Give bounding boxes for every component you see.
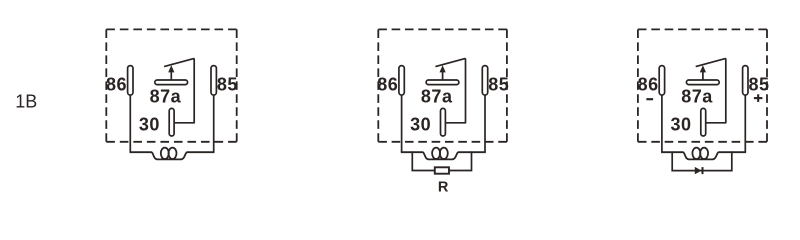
svg-text:30: 30 <box>670 115 691 135</box>
relay K2 coil winding <box>401 148 486 160</box>
relay K1 terminal pin 86 <box>128 66 133 96</box>
relay K3 terminal pin 86 <box>659 66 664 96</box>
relay K2 actuation arrow <box>440 65 446 80</box>
diode D <box>695 167 704 174</box>
svg-text:30: 30 <box>139 115 160 135</box>
polarity plus at 85 <box>754 94 763 102</box>
polarity minus at 86 <box>646 98 653 100</box>
svg-text:85: 85 <box>749 75 770 95</box>
relay K1 wire from pin 86 to coil <box>129 95 131 153</box>
relay K2 wire from pin 85 to coil <box>484 95 486 153</box>
relay K3 diode branch wire <box>672 151 732 170</box>
svg-text:30: 30 <box>410 115 431 135</box>
svg-text:R: R <box>438 180 449 196</box>
relay K2 terminal pin 85 <box>482 66 487 96</box>
relay K3 terminal pin 85 <box>743 66 748 96</box>
relay K1 fixed contact 87a bar <box>155 80 188 85</box>
relay K2 wire from pin 86 to coil <box>401 95 403 153</box>
svg-text:1B: 1B <box>15 92 37 112</box>
relay K1 armature and wire to pin 30 <box>164 59 194 123</box>
relay K3 dashed enclosure <box>638 29 767 141</box>
relay K3 wire from pin 86 to coil <box>661 95 663 153</box>
svg-text:86: 86 <box>377 75 398 95</box>
resistor R <box>435 167 449 173</box>
relay K1 dashed enclosure <box>106 29 236 141</box>
relay K1 wire from pin 85 to coil <box>213 95 215 153</box>
relay K1 terminal pin 30 <box>169 108 174 136</box>
relay K3 armature and wire to pin 30 <box>696 59 726 123</box>
relay K3 terminal pin 30 <box>701 108 706 136</box>
relay K3 wire from pin 85 to coil <box>744 95 746 153</box>
relay K2 armature and wire to pin 30 <box>435 59 465 123</box>
svg-text:85: 85 <box>217 75 238 95</box>
svg-text:87a: 87a <box>681 86 713 106</box>
relay K3 fixed contact 87a bar <box>686 80 719 85</box>
relay K1 actuation arrow <box>168 65 174 80</box>
relay K2 dashed enclosure <box>378 29 507 141</box>
relay K1 terminal pin 85 <box>211 66 216 96</box>
svg-text:86: 86 <box>638 75 659 95</box>
relay K3 coil winding <box>661 148 746 160</box>
svg-text:87a: 87a <box>421 86 453 106</box>
relay K2 terminal pin 86 <box>399 66 404 96</box>
svg-text:87a: 87a <box>150 86 182 106</box>
relay K2 resistor branch wire <box>412 151 471 170</box>
svg-text:85: 85 <box>488 75 509 95</box>
relay K2 terminal pin 30 <box>441 108 446 136</box>
relay K2 fixed contact 87a bar <box>426 80 459 85</box>
relay K1 coil winding <box>130 148 215 160</box>
relay K3 actuation arrow <box>700 65 706 80</box>
svg-text:86: 86 <box>106 75 127 95</box>
